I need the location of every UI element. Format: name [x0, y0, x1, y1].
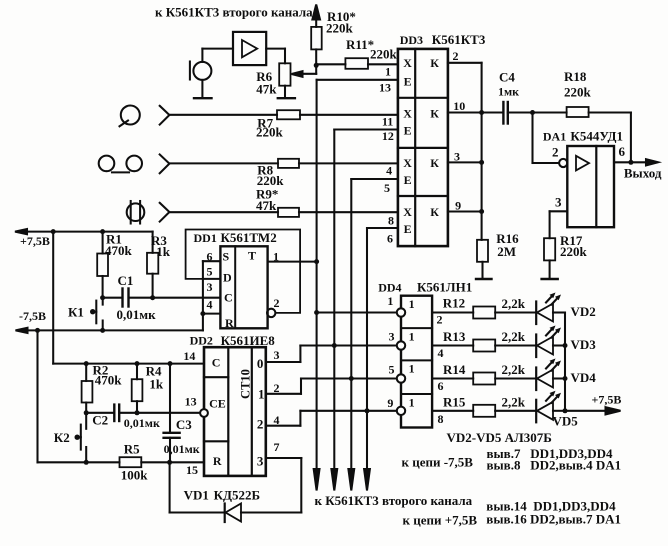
svg-text:6: 6: [619, 144, 626, 159]
svg-text:D: D: [223, 271, 232, 285]
svg-text:VD3: VD3: [571, 337, 597, 352]
svg-text:1: 1: [409, 362, 415, 376]
svg-text:1: 1: [258, 386, 265, 401]
svg-text:0,01мк: 0,01мк: [164, 442, 200, 456]
svg-text:220k: 220k: [564, 85, 592, 100]
svg-text:VD5: VD5: [553, 414, 579, 429]
svg-text:2,2k: 2,2k: [502, 296, 526, 311]
svg-text:2,2k: 2,2k: [502, 395, 526, 410]
svg-text:R14: R14: [443, 362, 466, 377]
svg-text:X: X: [403, 156, 412, 170]
svg-text:X: X: [403, 205, 412, 219]
svg-text:6: 6: [387, 232, 393, 246]
svg-text:2М: 2М: [497, 244, 516, 259]
svg-text:2: 2: [274, 296, 280, 310]
svg-text:1k: 1k: [149, 376, 164, 391]
svg-text:1: 1: [409, 297, 415, 311]
svg-text:DD1: DD1: [194, 231, 217, 245]
svg-text:5: 5: [384, 181, 390, 195]
svg-text:К561ЛН1: К561ЛН1: [417, 280, 472, 295]
svg-text:С1: С1: [118, 273, 134, 288]
svg-text:DD3: DD3: [400, 33, 423, 47]
svg-text:Е: Е: [404, 173, 412, 187]
svg-text:1мк: 1мк: [498, 85, 519, 99]
svg-text:К561КТ3: К561КТ3: [432, 32, 486, 47]
svg-text:12: 12: [382, 129, 394, 143]
svg-text:R13: R13: [443, 329, 466, 344]
svg-text:Е: Е: [404, 222, 412, 236]
svg-text:X: X: [403, 107, 412, 121]
svg-text:470k: 470k: [95, 373, 123, 388]
svg-text:47k: 47k: [256, 82, 277, 97]
svg-text:1: 1: [409, 395, 415, 409]
svg-text:R: R: [213, 454, 222, 468]
svg-text:13: 13: [379, 81, 391, 95]
svg-text:К: К: [430, 205, 439, 219]
svg-text:К2: К2: [54, 430, 70, 445]
svg-text:S: S: [223, 250, 230, 264]
svg-text:2,2k: 2,2k: [502, 362, 526, 377]
svg-text:3: 3: [274, 348, 280, 362]
svg-text:К1: К1: [68, 305, 84, 320]
svg-text:2: 2: [453, 49, 459, 63]
svg-text:3: 3: [207, 280, 213, 294]
svg-text:1: 1: [273, 250, 279, 264]
svg-text:4: 4: [386, 164, 392, 178]
svg-text:3: 3: [555, 195, 562, 210]
svg-text:2: 2: [552, 145, 559, 160]
svg-text:T: T: [248, 249, 256, 263]
svg-text:220k: 220k: [370, 47, 398, 62]
svg-text:К544УД1: К544УД1: [570, 129, 623, 144]
svg-text:3: 3: [257, 453, 264, 468]
svg-text:2: 2: [437, 313, 443, 327]
svg-text:+7,5В: +7,5В: [20, 234, 50, 248]
svg-text:к К561КТ3 второго канала: к К561КТ3 второго канала: [315, 493, 473, 508]
svg-text:0: 0: [257, 356, 264, 371]
svg-text:К561ТМ2: К561ТМ2: [221, 230, 277, 245]
svg-text:15: 15: [186, 463, 198, 477]
svg-text:Выход: Выход: [624, 166, 662, 181]
svg-text:К: К: [430, 156, 439, 170]
svg-text:4: 4: [274, 413, 280, 427]
svg-text:КД522Б: КД522Б: [214, 488, 260, 503]
svg-text:2,2k: 2,2k: [502, 329, 526, 344]
svg-text:CE: CE: [209, 397, 226, 411]
svg-text:C: C: [212, 356, 221, 370]
svg-text:К561ИЕ8: К561ИЕ8: [221, 333, 276, 348]
svg-text:9: 9: [387, 396, 393, 410]
svg-text:5: 5: [207, 264, 213, 278]
svg-text:С4: С4: [499, 70, 515, 85]
svg-text:к цепи -7,5В: к цепи -7,5В: [402, 455, 474, 470]
svg-text:9: 9: [455, 199, 461, 213]
svg-text:100k: 100k: [121, 468, 149, 483]
svg-text:47k: 47k: [256, 198, 277, 213]
svg-text:0,01мк: 0,01мк: [117, 307, 157, 322]
svg-text:выв.16 DD2,выв.7 DA1: выв.16 DD2,выв.7 DA1: [486, 512, 621, 527]
svg-text:VD2: VD2: [571, 304, 596, 319]
svg-text:К: К: [430, 107, 439, 121]
svg-text:4: 4: [207, 298, 213, 312]
svg-text:220k: 220k: [560, 244, 588, 259]
svg-text:6: 6: [207, 250, 213, 264]
svg-text:2: 2: [257, 417, 264, 432]
svg-text:R: R: [225, 316, 234, 330]
svg-text:VD1: VD1: [184, 488, 209, 503]
svg-text:3: 3: [389, 330, 395, 344]
svg-text:С2: С2: [92, 413, 108, 428]
svg-text:К: К: [430, 56, 439, 70]
svg-text:VD2-VD5 АЛ307Б: VD2-VD5 АЛ307Б: [447, 430, 552, 445]
svg-text:R15: R15: [443, 394, 466, 409]
svg-text:220k: 220k: [326, 21, 354, 36]
svg-text:220k: 220k: [256, 125, 284, 140]
svg-text:к К561КТ3 второго канала: к К561КТ3 второго канала: [155, 5, 313, 20]
svg-text:DD4: DD4: [378, 281, 401, 295]
svg-text:4: 4: [438, 346, 444, 360]
svg-text:10: 10: [453, 99, 465, 113]
svg-text:R12: R12: [443, 296, 465, 311]
svg-text:DA1: DA1: [543, 130, 566, 144]
svg-text:DD2: DD2: [190, 334, 213, 348]
svg-text:С3: С3: [176, 417, 192, 432]
svg-text:1: 1: [387, 294, 393, 308]
svg-text:R5: R5: [124, 441, 140, 456]
svg-text:X: X: [403, 56, 412, 70]
svg-text:13: 13: [185, 395, 197, 409]
svg-text:R18: R18: [564, 69, 587, 84]
svg-text:5: 5: [389, 363, 395, 377]
svg-text:3: 3: [454, 150, 460, 164]
svg-text:11: 11: [382, 114, 393, 128]
svg-text:470k: 470k: [105, 243, 133, 258]
svg-text:1: 1: [409, 329, 415, 343]
svg-text:1k: 1k: [156, 244, 171, 259]
svg-text:14: 14: [183, 349, 195, 363]
svg-text:VD4: VD4: [571, 370, 597, 385]
svg-text:6: 6: [438, 379, 444, 393]
svg-text:7: 7: [274, 440, 280, 454]
svg-text:к цепи +7,5В: к цепи +7,5В: [403, 513, 478, 528]
svg-text:Е: Е: [404, 124, 412, 138]
svg-text:1: 1: [385, 65, 391, 79]
svg-text:8: 8: [438, 412, 444, 426]
svg-text:выв.8 DD2,выв.4 DA1: выв.8 DD2,выв.4 DA1: [487, 458, 622, 473]
svg-text:C: C: [224, 291, 233, 305]
svg-text:2: 2: [274, 381, 280, 395]
svg-text:-7,5В: -7,5В: [19, 309, 46, 323]
svg-text:8: 8: [388, 214, 394, 228]
svg-text:+7,5В: +7,5В: [592, 393, 622, 407]
svg-text:Е: Е: [404, 75, 412, 89]
svg-text:СТ10: СТ10: [239, 369, 253, 399]
svg-text:0,01мк: 0,01мк: [124, 416, 160, 430]
